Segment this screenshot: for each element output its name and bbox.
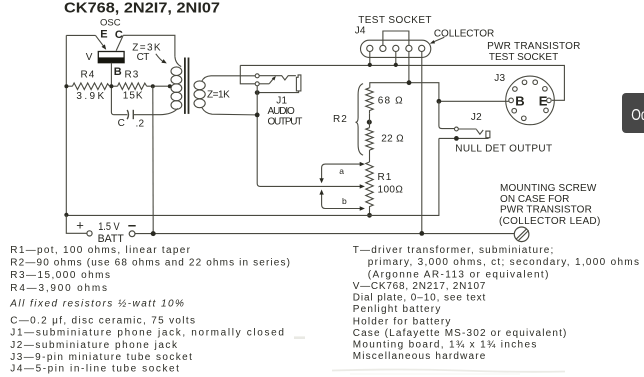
svg-text:Od: Od [631,107,644,124]
svg-text:TEST SOCKET: TEST SOCKET [358,15,432,26]
svg-text:Dial plate, 0–10, see text: Dial plate, 0–10, see text [353,293,486,304]
svg-text:R1: R1 [378,172,392,183]
jack J2 contact circle [455,127,459,131]
svg-text:(Argonne AR-113 or equivalent): (Argonne AR-113 or equivalent) [368,269,549,280]
node dot 68/22 junction [367,120,372,125]
node dot CT-drop / bottom rail [151,231,156,236]
svg-text:J4: J4 [355,25,366,36]
svg-text:BATT: BATT [98,233,124,245]
transformer core lines [184,58,186,114]
svg-text:E: E [100,29,107,41]
socket J3 pin 328deg [544,108,549,113]
battery left terminal circle [87,231,92,236]
svg-text:a: a [339,166,344,176]
svg-text:J2: J2 [471,112,482,123]
socket J4 pin 4 [406,45,412,51]
battery left leg [66,215,87,233]
wire J2 sleeve line [439,137,489,139]
socket J4 pin 5 [419,45,425,51]
wire bottom rail to mounting screw [135,233,514,235]
resistor R2b 22 ohm zigzag [366,128,373,150]
svg-text:V: V [86,52,93,63]
wire J4 pin4 lead [408,52,410,83]
svg-text:15K: 15K [123,91,143,102]
wire between R4 and R3 [110,85,118,87]
wire R3 to transformer CT [147,85,170,87]
socket J3 pin E [547,98,552,103]
wire J4 pin1 lead [369,52,371,65]
socket J4 body [361,40,431,57]
socket J3 pin 143deg [513,87,518,92]
svg-text:R4: R4 [81,70,95,81]
wire J2 sleeve down joining bottom-left rail [66,138,439,215]
svg-text:3.9K: 3.9K [76,91,104,102]
wire J2 feed [439,101,455,128]
arrow J1 movable contact [269,79,273,84]
svg-text:PWR TRANSISTOR: PWR TRANSISTOR [500,205,592,216]
svg-text:R3—15,000 ohms: R3—15,000 ohms [10,270,110,281]
wire C lead diagonal [116,35,123,50]
svg-text:NULL DET OUTPUT: NULL DET OUTPUT [455,143,552,154]
svg-text:C: C [118,118,125,129]
wire 68ohm top / pin4 / J2-J3 branch [370,83,439,102]
svg-text:b: b [342,196,347,206]
parts list left column [9,245,290,375]
parts list right column [353,245,640,362]
wire secondary top lead to J1 [202,76,255,81]
node dot pin3/rail [394,63,398,67]
svg-text:J2—subminiature phone jack: J2—subminiature phone jack [10,340,178,351]
node dot left end mid rail [64,213,68,217]
socket J3 pin 107deg [522,80,527,85]
svg-text:OUTPUT: OUTPUT [268,116,303,127]
transformer T primary winding (5 loops) [175,56,181,66]
chevron J2 tip contact [476,129,483,134]
capacitor C right plate [132,110,134,119]
socket J4 pin 3 [393,45,399,51]
svg-text:TEST SOCKET: TEST SOCKET [489,52,559,63]
wire J1 tip line with chevron dip [259,76,296,80]
svg-text:primary, 3,000 ohms, ct; secon: primary, 3,000 ohms, ct; secondary, 1,00… [368,257,640,268]
svg-text:Mounting board, 1¾ x 1¾ inches: Mounting board, 1¾ x 1¾ inches [353,339,537,350]
potentiometer R1 zigzag [366,162,373,215]
svg-text:B: B [515,94,524,109]
node dot pin5 lead / bottom rail [419,231,424,236]
svg-text:J3: J3 [494,73,505,84]
svg-text:J4—5-pin in-line tube socket: J4—5-pin in-line tube socket [10,364,179,375]
svg-text:R2—90 ohms (use 68 ohms and 22: R2—90 ohms (use 68 ohms and 22 ohms in s… [10,257,290,268]
jack J2 plug body [486,131,490,138]
svg-text:AUDIO: AUDIO [268,106,296,117]
svg-text:Miscellaneous hardware: Miscellaneous hardware [353,351,486,362]
wire E lead diagonal with arrowhead [96,35,104,46]
svg-text:Case (Lafayette MS-302 or equi: Case (Lafayette MS-302 or equivalent) [353,328,567,339]
svg-text:Penlight battery: Penlight battery [353,304,441,315]
svg-text:.2: .2 [136,118,145,129]
svg-text:(COLLECTOR LEAD): (COLLECTOR LEAD) [499,216,601,227]
svg-text:J3—9-pin miniature tube socket: J3—9-pin miniature tube socket [10,352,192,363]
wire J3 B lead [439,100,509,102]
transistor V body [98,52,124,63]
brace R2 group [356,84,364,156]
arrow COLLECTOR pointer [433,37,444,42]
wire J1 output vertical down and wiper line to R1 [257,86,361,187]
jack J1 plug body [296,75,301,91]
svg-text:MOUNTING SCREW: MOUNTING SCREW [500,183,597,194]
node dot J2/J3 branch [437,99,442,104]
transformer T secondary winding (3 loops) [194,81,205,90]
scan smudge small [294,336,305,339]
wire capacitor right to transformer bottom [133,108,178,114]
wire top rail from C to transformer [123,35,175,56]
wire tap b with arrows [322,194,362,209]
node dot left rail / R4 [64,84,68,88]
socket J4 pin 2 [380,45,386,51]
wire J1 feed corner [240,65,255,83]
svg-text:J1—subminiature phone jack, no: J1—subminiature phone jack, normally clo… [10,328,284,339]
jack J1 upper contact circle [255,74,259,78]
wire upper rail J1 to J3 (y65) [240,65,564,100]
wire left vertical rail [65,35,67,214]
wire J4 pin5 lead down to bottom rail [421,52,423,234]
svg-text:CK768, 2N2I7, 2NI07: CK768, 2N2I7, 2NI07 [64,0,220,16]
overlay tab [622,93,644,133]
wire resistor row left stub [66,85,72,87]
node dot R1 bottom [367,213,372,218]
battery right terminal circle [129,231,135,237]
wire top rail from left corner to E lead [66,34,95,36]
capacitor C left plate (curved) [127,110,128,119]
label minus [128,225,135,227]
wire secondary bottom lead [202,108,257,115]
wire J2 tip lead [458,128,476,130]
socket J3 pin B [509,98,514,103]
svg-text:T—driver transformer, subminia: T—driver transformer, subminiature; [353,245,554,256]
wire tap a with arrows [322,164,362,179]
svg-text:Holder for battery: Holder for battery [353,316,451,327]
resistor R3 zigzag [118,83,147,90]
svg-text:PWR TRANSISTOR: PWR TRANSISTOR [487,41,580,52]
svg-text:C: C [115,29,123,41]
svg-text:V—CK768, 2N217, 2N107: V—CK768, 2N217, 2N107 [353,281,486,292]
node dot R3 / down wire [151,84,155,88]
wire base lead vertical down to capacitor corner [111,63,127,115]
wire CT junction down to bottom rail [152,86,154,233]
svg-text:C—0.2 μf, disc ceramic, 75 vol: C—0.2 μf, disc ceramic, 75 volts [10,315,195,326]
svg-text:1.5 V: 1.5 V [98,221,120,233]
socket J3 pin 251deg [522,116,527,121]
arrow CT pointer [156,54,164,62]
node dot pin1/rail [368,63,372,67]
svg-text:R2: R2 [333,114,347,125]
jack J1 lower contact circle [255,82,259,86]
svg-text:22 Ω: 22 Ω [381,134,404,145]
svg-text:B: B [114,66,122,78]
scan smudge bottom [332,370,565,375]
mounting screw symbol [514,227,529,242]
socket J3 pin 213deg [512,108,517,113]
svg-text:R4—3,900 ohms: R4—3,900 ohms [10,283,107,294]
wire 22 ohm to R1 [369,150,371,162]
wire J4 bracket pins 2-4 [383,31,409,45]
svg-text:R1—pot, 100 ohms, linear taper: R1—pot, 100 ohms, linear taper [10,245,190,256]
socket J3 pin 74deg [533,80,538,85]
node dot secondary bottom junction [255,113,260,118]
svg-text:ON CASE FOR: ON CASE FOR [500,194,570,205]
node dot center tap [168,84,172,88]
resistor R4 zigzag [72,83,109,90]
socket J3 pin 38deg [543,87,548,92]
svg-text:68 Ω: 68 Ω [378,95,403,106]
svg-text:100Ω: 100Ω [378,185,404,196]
svg-text:+: + [76,218,84,233]
wire J1 lower contact lead [259,83,269,85]
node dot pin4 branch [407,80,412,85]
node dot J1 sleeve [255,90,260,95]
node dot base/R4/R3 [109,84,113,88]
wire J4 pin3 lead [395,52,397,65]
node dot J2 sleeve [454,136,459,141]
socket J3 outer circle [506,76,555,125]
svg-text:R3: R3 [125,70,139,81]
svg-text:CT: CT [137,52,150,63]
svg-text:OSC: OSC [100,18,121,29]
svg-text:Z=1K: Z=1K [207,90,230,101]
socket J4 pin 1 [367,45,373,51]
wire J1 sleeve down to junction [257,91,298,93]
resistor R2a 68 ohm zigzag [366,88,373,114]
svg-text:All fixed resistors ½-watt 10%: All fixed resistors ½-watt 10% [9,299,184,310]
svg-text:E: E [539,94,548,109]
